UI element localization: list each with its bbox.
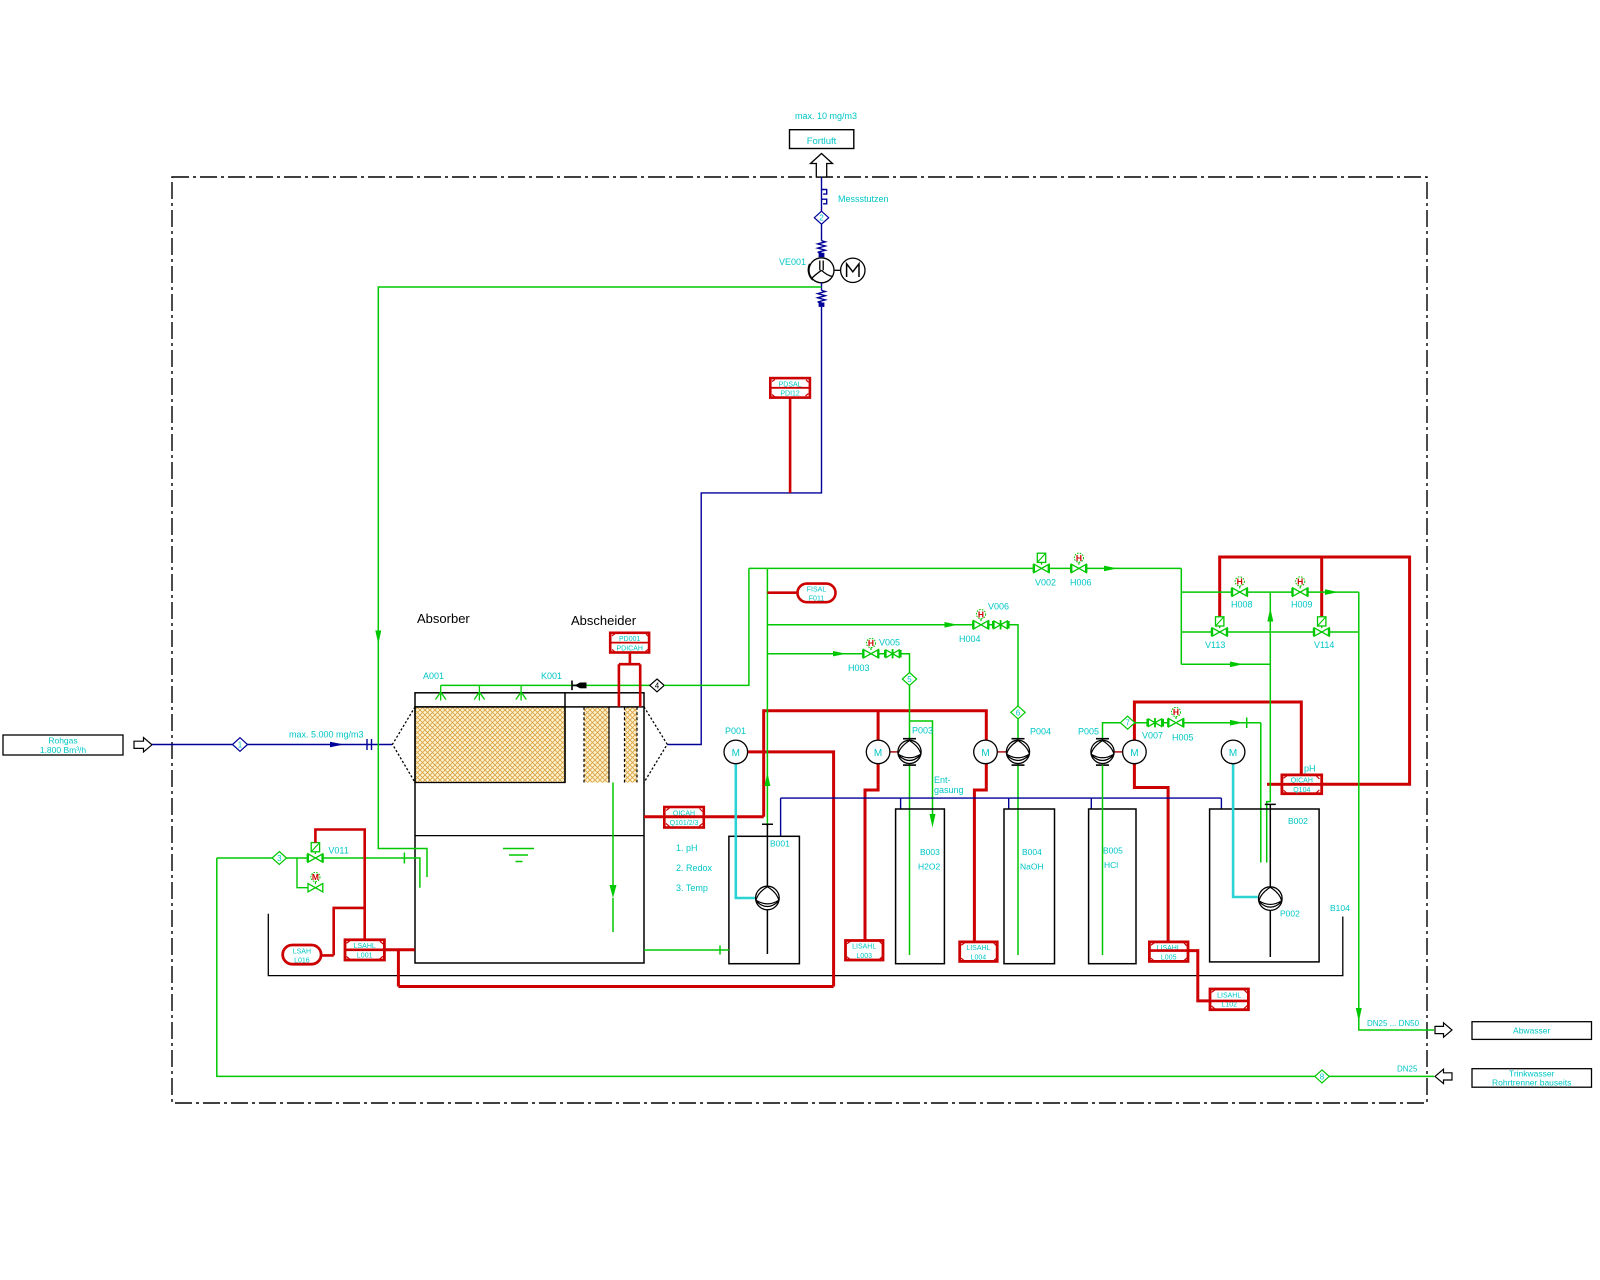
svg-text:B003: B003 [920, 847, 940, 857]
svg-text:Rohrtrenner bauseits: Rohrtrenner bauseits [1492, 1077, 1571, 1087]
sump liquid line [415, 835, 644, 837]
svg-text:1: 1 [238, 741, 243, 750]
hand valve H008 [1231, 577, 1248, 597]
svg-text:B104: B104 [1330, 903, 1350, 913]
svg-text:H: H [978, 609, 984, 619]
hand valve H009 [1291, 577, 1308, 597]
svg-text:3: 3 [277, 854, 282, 863]
svg-text:H2O2: H2O2 [918, 862, 940, 872]
svg-text:M: M [732, 748, 740, 759]
svg-text:H: H [1297, 577, 1303, 587]
wire H008 H009 line [1181, 591, 1359, 593]
node 6 diamond [1011, 706, 1025, 719]
svg-text:8: 8 [1320, 1072, 1325, 1081]
wire abscheider drain [612, 783, 614, 895]
svg-text:pH: pH [1304, 764, 1316, 774]
svg-text:PD001: PD001 [619, 636, 641, 643]
wire P005 to L005 [1134, 764, 1168, 942]
svg-text:Abwasser: Abwasser [1513, 1026, 1550, 1036]
pump P005 [1091, 739, 1123, 765]
svg-text:PDSAL: PDSAL [779, 381, 802, 388]
node 2 diamond [814, 211, 828, 224]
instrument QICAH Q101/2/3 [664, 807, 704, 828]
spray nozzle 3 [516, 685, 526, 700]
wire Trinkwasser supply [217, 858, 1434, 1076]
spray nozzle 1 [436, 685, 446, 700]
instrument LSAH L016 [283, 945, 321, 964]
instrument PDSAL PDI12 [770, 378, 810, 398]
hand valve H003 [862, 638, 879, 658]
pump in B002 P002 [1259, 887, 1283, 911]
pump in B001 [756, 886, 780, 910]
wire Q104 to valves [1220, 557, 1410, 784]
valve V011 [307, 843, 324, 863]
svg-text:P002: P002 [1280, 909, 1300, 919]
membrane valve V113 [1211, 617, 1228, 636]
svg-text:DN25: DN25 [1397, 1065, 1418, 1074]
svg-text:VE001: VE001 [779, 257, 806, 267]
tank B003 [896, 809, 945, 964]
fan VE001 [809, 258, 834, 283]
instrument LISAHL L102 [1210, 989, 1248, 1010]
compensator top [818, 241, 826, 253]
flange [367, 739, 372, 750]
node 1 diamond [233, 738, 248, 752]
svg-text:2: 2 [819, 214, 824, 223]
wire P004 to L004 [974, 764, 986, 942]
wire L016 signal branch [321, 908, 365, 956]
svg-text:B002: B002 [1288, 816, 1308, 826]
svg-text:M: M [1130, 748, 1138, 759]
wire H003 dosing branch [767, 654, 909, 673]
svg-text:K001: K001 [541, 671, 562, 681]
spray header [441, 684, 650, 686]
flange tick H005 line [1246, 718, 1248, 729]
svg-text:H005: H005 [1172, 733, 1194, 743]
svg-text:H: H [1173, 707, 1179, 717]
node 4 diamond [650, 679, 664, 692]
motor P004 [974, 740, 998, 764]
wire V114 actuator drop [1320, 557, 1323, 617]
Trinkwasser box [1472, 1069, 1592, 1088]
svg-text:P004: P004 [1030, 727, 1051, 737]
node 5 diamond [902, 673, 916, 686]
wire washwater return [378, 287, 821, 877]
vessel top band [415, 693, 644, 707]
wire exhaust duct [821, 177, 823, 241]
svg-text:M: M [874, 748, 882, 759]
vessel body outline [415, 693, 644, 783]
wire fresh water line [217, 857, 405, 859]
svg-text:M: M [1229, 748, 1237, 759]
svg-text:H004: H004 [959, 634, 981, 644]
svg-text:L001: L001 [357, 952, 373, 959]
hand valve H005 [1167, 707, 1184, 727]
check valve V006 [992, 620, 1010, 629]
svg-text:H006: H006 [1070, 578, 1092, 588]
wire fan suction duct [667, 307, 821, 745]
wire H005 dosing line [1103, 723, 1261, 740]
svg-text:M: M [981, 748, 989, 759]
Fortluft outlet arrow [811, 154, 833, 178]
pump P003 [890, 739, 921, 765]
svg-text:Fortluft: Fortluft [807, 136, 837, 147]
svg-text:H: H [1237, 577, 1243, 587]
svg-text:V005: V005 [879, 638, 900, 648]
motor M of fan [841, 258, 865, 282]
svg-text:LISAHL: LISAHL [966, 945, 990, 952]
wire B002 manifold riser [1267, 592, 1271, 862]
absorber packing crosshatch [415, 707, 565, 783]
wire V011 signal line [315, 830, 364, 940]
flow arrow H003 branch [833, 651, 846, 656]
signal line PD taps [619, 653, 640, 707]
instrument QICAH Q104 [1282, 775, 1322, 794]
svg-text:V007: V007 [1142, 731, 1163, 741]
Fortluft box [790, 130, 854, 149]
demister pad 1 [584, 707, 609, 783]
hand valve H006 [1070, 553, 1087, 573]
wire P003 feed drop [877, 711, 880, 740]
flow arrow manifold [1104, 566, 1117, 572]
flow arrow suction cross [1230, 662, 1243, 668]
Rohgas source box [3, 735, 123, 755]
vessel right cone [644, 707, 667, 783]
restriction symbol K001 [572, 681, 587, 691]
wire L001 riser [397, 950, 400, 987]
wire Entgasung vent [910, 721, 933, 820]
svg-text:A001: A001 [423, 671, 444, 681]
wire P002 suction cyan [1233, 764, 1258, 897]
wire common drain black [268, 914, 1343, 976]
wire P003 to L003 [865, 764, 878, 941]
wire demin water header [781, 798, 1222, 836]
motor P001 [724, 740, 748, 764]
pump P004 [997, 739, 1029, 765]
flow arrow B002 riser [1267, 608, 1273, 622]
wire B004 dip line [1017, 719, 1019, 955]
svg-text:4: 4 [655, 681, 660, 690]
svg-text:B001: B001 [770, 839, 790, 849]
instrument LISAHL L004 [960, 942, 998, 962]
svg-text:FISAL: FISAL [807, 587, 827, 594]
svg-text:Q101/2/3: Q101/2/3 [670, 820, 699, 827]
motor P003 [866, 740, 890, 764]
svg-text:B004: B004 [1022, 847, 1042, 857]
svg-text:Q104: Q104 [1293, 787, 1310, 794]
svg-text:5: 5 [907, 675, 912, 684]
node 8 diamond [1315, 1070, 1329, 1083]
svg-text:1.800 Bm³/h: 1.800 Bm³/h [40, 745, 87, 755]
wire bottom red run [398, 985, 833, 988]
wire Q104 sample stub [1267, 783, 1282, 786]
svg-text:H003: H003 [848, 663, 870, 673]
svg-text:B005: B005 [1103, 846, 1123, 856]
svg-text:P003: P003 [912, 726, 933, 736]
wire spray feed riser [664, 568, 749, 685]
svg-text:LISAHL: LISAHL [852, 944, 876, 951]
wire suction cross line [1181, 663, 1270, 665]
inlet arrow [134, 738, 152, 752]
motor P002 [1221, 740, 1245, 764]
svg-text:3. Temp: 3. Temp [676, 883, 708, 893]
liquid level symbol [503, 849, 534, 862]
flow arrow [330, 742, 344, 747]
svg-text:H: H [868, 638, 874, 648]
flow arrow washwater [375, 631, 381, 645]
svg-text:H009: H009 [1291, 600, 1313, 610]
svg-text:L102: L102 [1221, 1002, 1237, 1009]
wire dosing main B [1134, 702, 1301, 775]
svg-text:PDICAH: PDICAH [616, 646, 642, 653]
svg-text:L003: L003 [856, 953, 872, 960]
wire P001 discharge [748, 752, 834, 987]
flow arrow Abwasser [1356, 1008, 1362, 1022]
signal line PDSAL tap [789, 398, 792, 493]
flow arrow H005 line [1230, 720, 1243, 726]
wire V113 V114 line [1181, 631, 1359, 633]
tank B005 [1089, 809, 1136, 964]
wire B002 fill drop [1260, 723, 1262, 863]
wire L001 probe stub [384, 948, 414, 951]
svg-text:LSAH: LSAH [293, 948, 311, 955]
B002 dip tube [1265, 804, 1276, 957]
absorber sump [415, 783, 644, 964]
instrument FISAL F011 [767, 591, 797, 594]
vessel left cone [393, 707, 416, 783]
wire B003 dip line [909, 686, 911, 956]
wire manifold drop right [1180, 568, 1182, 664]
Messstutzen nozzles [822, 190, 827, 204]
svg-text:1. pH: 1. pH [676, 843, 698, 853]
border frame dash-dot [172, 177, 1427, 1103]
flow arrow H004 branch [945, 622, 958, 628]
hand valve H004 [972, 609, 989, 629]
svg-text:V011: V011 [328, 846, 348, 856]
bypass hand valve [308, 872, 323, 892]
wire sump overflow to B001 [644, 946, 729, 955]
instrument LISAHL L005 [1149, 942, 1188, 962]
check valve V007 [1146, 718, 1164, 727]
svg-text:HCl: HCl [1104, 860, 1118, 870]
wire P001 suction cyan [736, 764, 755, 898]
instrument PD001 PDICAH [610, 633, 649, 653]
tank B004 [1004, 809, 1055, 964]
wire QICAH sample line [644, 815, 764, 818]
svg-text:H: H [1076, 553, 1082, 563]
wire L005 to L102 [1188, 951, 1210, 1001]
motor P005 [1123, 740, 1147, 764]
wire B005 dip line [1102, 765, 1104, 955]
svg-text:V002: V002 [1035, 578, 1056, 588]
membrane valve V114 [1313, 617, 1330, 636]
compensator bottom [818, 290, 826, 302]
flow arrow B001 riser [764, 773, 770, 787]
wire fan outlet [821, 283, 823, 291]
Abwasser box [1472, 1022, 1592, 1040]
Trinkwasser arrow [1435, 1069, 1452, 1083]
svg-text:Messstutzen: Messstutzen [838, 194, 889, 204]
node 7 diamond [1120, 716, 1134, 729]
wire B001 riser [766, 568, 768, 826]
spray nozzle 2 [474, 685, 484, 700]
wire dosing manifold top [749, 567, 1181, 569]
membrane valve V002 [1033, 553, 1050, 572]
svg-text:H008: H008 [1231, 600, 1253, 610]
svg-text:NaOH: NaOH [1020, 862, 1044, 872]
svg-text:max. 5.000 mg/m3: max. 5.000 mg/m3 [289, 730, 364, 740]
svg-text:P001: P001 [725, 726, 746, 736]
node 3 diamond [272, 852, 286, 865]
svg-text:6: 6 [1016, 708, 1021, 717]
flow arrow H009 line [1325, 589, 1338, 595]
wire H004 dosing branch [767, 625, 1018, 706]
svg-text:2. Redox: 2. Redox [676, 863, 713, 873]
tank B001 [729, 836, 800, 963]
svg-text:max. 10 mg/m3: max. 10 mg/m3 [795, 111, 857, 121]
wire Abwasser drain riser [1359, 592, 1434, 1030]
svg-text:DN25 ... DN50: DN25 ... DN50 [1367, 1019, 1420, 1028]
svg-text:L016: L016 [294, 957, 310, 964]
svg-text:M: M [312, 872, 319, 882]
wire raw gas line [152, 744, 392, 746]
wire dosing main A [764, 711, 987, 817]
instrument LISAHL L003 [846, 941, 884, 961]
svg-text:V006: V006 [988, 602, 1009, 612]
Abwasser arrow [1435, 1023, 1452, 1037]
svg-text:Ent-: Ent- [934, 775, 951, 785]
svg-text:Abscheider: Abscheider [571, 613, 637, 628]
svg-text:L005: L005 [1161, 954, 1177, 961]
tank B002 [1210, 809, 1320, 962]
B001 dip tube [762, 824, 773, 954]
instrument LSAHL L001 [345, 940, 384, 960]
svg-text:LISAHL: LISAHL [1217, 992, 1241, 999]
svg-text:V113: V113 [1205, 640, 1225, 650]
fan shaft [834, 269, 841, 271]
check valve V005 [884, 649, 902, 658]
svg-text:7: 7 [1125, 719, 1130, 728]
svg-text:gasung: gasung [934, 785, 964, 795]
svg-text:PDI12: PDI12 [780, 391, 800, 398]
svg-text:F011: F011 [809, 595, 825, 602]
svg-text:Absorber: Absorber [417, 611, 470, 626]
svg-text:P005: P005 [1078, 727, 1099, 737]
svg-text:V114: V114 [1314, 640, 1334, 650]
bypass loop V011 [297, 858, 308, 888]
demister pad 2 [625, 707, 638, 783]
svg-text:L004: L004 [971, 954, 987, 961]
